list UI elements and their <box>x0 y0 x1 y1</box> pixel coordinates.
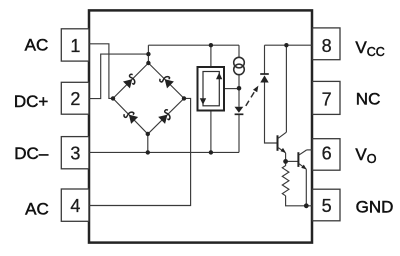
svg-text:DC–: DC– <box>14 144 49 163</box>
output top rail <box>265 44 313 46</box>
svg-text:8: 8 <box>322 36 332 56</box>
resistor R1 <box>282 161 289 195</box>
junction box right on LED string <box>237 86 242 91</box>
junction Q1 emitter node <box>283 159 288 164</box>
photodiode <box>260 73 269 75</box>
wire LED cathode down to DC- rail <box>238 114 240 152</box>
svg-text:7: 7 <box>322 90 332 110</box>
wire threshold box bottom pin <box>210 111 212 153</box>
bridge diode D1 (top-left) <box>123 73 138 88</box>
wire pin1 to bridge left corner <box>89 44 113 99</box>
transistor Q1 <box>277 135 279 151</box>
LED (emitter diode) <box>235 107 244 113</box>
pin 6 box <box>313 139 340 171</box>
junction bridge right <box>182 96 186 100</box>
hysteresis down arrow <box>200 98 206 105</box>
junction bridge bottom on DC- rail <box>146 150 150 154</box>
junction box bottom on DC- rail <box>209 150 213 154</box>
wire current source to LED <box>238 75 240 107</box>
junction bridge bottom <box>146 132 150 136</box>
wire threshold box right pin <box>224 88 239 90</box>
wire pin2 up to DC+ node <box>89 54 148 99</box>
svg-text:VCC: VCC <box>355 38 384 59</box>
wire Q1 collector riser <box>285 45 287 132</box>
hysteresis loop <box>203 72 219 106</box>
bridge diode D3 (bottom-left) <box>123 109 138 124</box>
wire bridge top riser <box>147 45 149 63</box>
wire rail down to current source <box>238 45 240 57</box>
junction box top on rail <box>209 43 213 47</box>
svg-text:AC: AC <box>25 199 49 218</box>
svg-text:2: 2 <box>70 89 80 109</box>
wire pin4 to bridge right corner <box>89 98 191 205</box>
DC- rail from pin3 <box>89 151 239 153</box>
svg-text:3: 3 <box>70 144 80 164</box>
svg-text:6: 6 <box>322 144 332 164</box>
bridge diode D2 (top-right) <box>159 73 174 88</box>
pin 3 box <box>61 137 89 169</box>
bridge diode D4 (bottom-right) <box>158 109 173 124</box>
junction node DC+ rail <box>146 52 150 56</box>
junction bridge top <box>146 61 150 65</box>
pin 5 box <box>313 189 340 221</box>
svg-text:VO: VO <box>355 145 376 166</box>
wire node to Q2 base <box>286 160 299 162</box>
junction GND node <box>304 203 309 208</box>
svg-text:GND: GND <box>356 197 394 216</box>
svg-text:5: 5 <box>322 196 332 216</box>
svg-text:NC: NC <box>356 90 381 109</box>
svg-text:4: 4 <box>70 196 80 216</box>
transistor Q2 <box>297 152 299 167</box>
wire Q1 emitter to node <box>285 153 287 162</box>
current source circles <box>234 57 245 68</box>
wire Q2 emitter down <box>305 169 307 206</box>
pin 4 box <box>61 189 89 221</box>
junction bridge left <box>111 96 115 100</box>
pin 1 box <box>61 29 89 61</box>
wire photodiode cathode riser <box>264 45 266 74</box>
light coupling arrow <box>246 92 255 106</box>
GND bottom rail to pin 5 <box>286 196 312 206</box>
pin 7 box <box>313 81 340 114</box>
wire threshold box top pin <box>210 45 212 67</box>
input top rail <box>148 44 239 46</box>
svg-text:1: 1 <box>70 36 80 56</box>
pin 2 box <box>61 82 89 114</box>
junction Q1 collector on output rail <box>284 43 288 47</box>
pin 8 box <box>313 28 340 60</box>
threshold detector box <box>198 67 225 111</box>
svg-text:AC: AC <box>25 35 49 54</box>
bridge diamond sides <box>113 63 184 134</box>
IC package body <box>89 10 312 242</box>
hysteresis up arrow <box>216 73 222 80</box>
wire photodiode anode to Q1 base <box>265 83 278 144</box>
svg-text:DC+: DC+ <box>14 92 49 111</box>
wire bridge bottom to DC- rail <box>147 134 149 152</box>
wire Q2 collector to pin 6 <box>307 149 312 151</box>
